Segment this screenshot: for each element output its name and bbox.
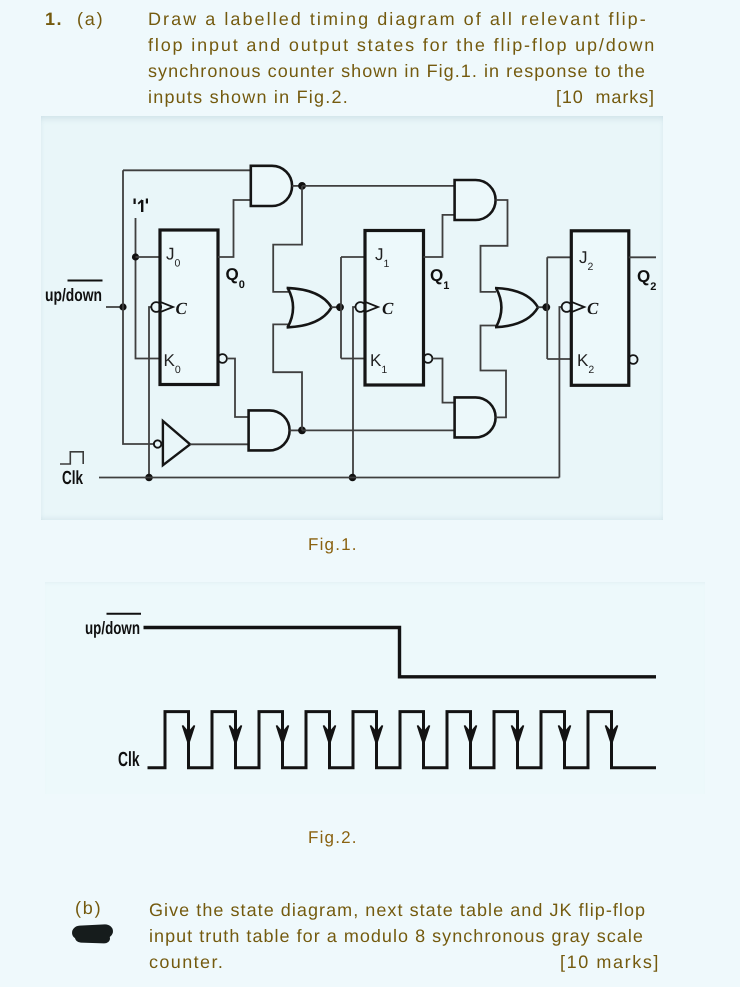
wire OR2 out to J2 and K2 — [547, 257, 571, 359]
wire AND2 out to AND4 lower input — [302, 429, 455, 431]
wire up/down input stub — [106, 306, 123, 308]
pin K2 label — [577, 351, 594, 376]
label Clk (waveform) — [118, 748, 140, 771]
pin C label FF0 — [176, 299, 188, 318]
label up/down (input) — [45, 285, 102, 305]
label Q2 — [637, 267, 656, 293]
overline of down (waveform label) — [107, 613, 142, 615]
wire Q0bar to AND2 upper input — [227, 359, 249, 418]
wire AND1 out to AND3 top input — [302, 185, 455, 187]
label Clk — [62, 468, 83, 489]
node OR1 output — [336, 303, 344, 311]
waveform up/down trace — [144, 628, 657, 677]
label up/down (waveform) — [85, 618, 140, 638]
wire Q2 output — [629, 256, 656, 258]
AND gate G1 (up AND Q0) — [251, 166, 292, 206]
inverter G5 triangle — [163, 421, 190, 465]
wire FF1 clock down to Clk bus — [353, 307, 356, 478]
wire '1' vertical to K0 — [136, 218, 161, 359]
wire Q0 to AND1 lower input — [218, 200, 252, 257]
wire AND4 out to OR2 lower input — [481, 326, 507, 418]
handwritten black blob mark — [72, 924, 114, 940]
FF2 Qbar bubble — [629, 355, 638, 364]
wire FF2 clock down to Clk bus — [559, 307, 561, 478]
wire FF0 clock down to Clk bus — [149, 307, 151, 478]
flip-flop U3 body — [571, 231, 629, 385]
pin K0 label — [164, 351, 181, 376]
wire OR1 out to J1 and K1 — [341, 257, 365, 359]
pin C label FF1 — [382, 299, 394, 318]
wire inverter output to AND2 lower input — [190, 443, 249, 445]
FF0 clock bubble — [151, 302, 161, 312]
node clock junction FF1 — [349, 474, 357, 482]
inverter input bubble — [154, 440, 161, 447]
node up/down junction — [119, 303, 126, 310]
clk falling edge arrows — [183, 726, 618, 745]
FF2 clock bubble — [562, 302, 572, 312]
FF1 clock wedge — [365, 302, 378, 312]
waveform Clk trace — [148, 712, 657, 768]
pin C label FF2 — [587, 299, 599, 318]
svg-text:up/down: up/down — [85, 618, 140, 638]
label Q1 — [430, 266, 449, 292]
node clock junction FF0 — [145, 474, 153, 482]
wire '1' to J0 — [136, 256, 161, 258]
label '1' constant — [135, 199, 147, 213]
wire Q1bar to AND4 upper input — [432, 359, 454, 403]
wire up/down to AND1 top input — [123, 169, 252, 171]
pin K1 label — [370, 351, 387, 376]
node '1' to J0 junction — [132, 253, 139, 260]
wire OR2 output stub — [538, 306, 547, 308]
OR gate G7 — [495, 288, 538, 327]
pin J1 label — [375, 245, 390, 270]
FF0 Qbar bubble — [218, 354, 227, 363]
overline of down — [68, 280, 103, 282]
FF1 Qbar bubble — [424, 354, 433, 363]
clock pulse symbol — [60, 452, 83, 464]
node AND2 output — [298, 427, 306, 435]
wire AND1 output stub — [292, 185, 302, 187]
wire AND1 out down to OR1 upper input — [273, 186, 302, 292]
AND gate G4 (up AND Q1) — [455, 180, 496, 220]
wire Q1 to AND3 lower input — [424, 215, 455, 257]
node AND1 output — [298, 182, 306, 190]
flip-flop U1 body — [160, 230, 218, 385]
AND gate G6 (down AND Q1bar) — [455, 397, 496, 437]
wire OR1 output stub — [331, 306, 340, 308]
wire AND2 out up to OR1 lower input — [273, 324, 302, 430]
node OR2 output — [542, 303, 550, 311]
FF2 clock wedge — [571, 302, 584, 312]
pin J0 label — [166, 245, 181, 270]
wire AND3 out to OR2 upper input — [481, 200, 508, 292]
Fig.1 caption — [308, 535, 358, 555]
AND gate G2 (down AND Q0bar) — [249, 410, 290, 450]
Fig.2 scanned timing diagram background — [45, 582, 705, 794]
OR gate G3 — [287, 288, 332, 328]
svg-text:Clk: Clk — [118, 748, 140, 771]
FF1 clock bubble — [356, 302, 366, 312]
label Q0 — [226, 265, 245, 291]
wire up/down vertical trunk — [123, 170, 154, 444]
flip-flop U2 body — [365, 231, 424, 386]
question 1(a) header text — [45, 6, 63, 32]
wire AND2 output stub — [290, 429, 302, 431]
FF0 clock wedge — [160, 302, 173, 312]
Fig.1 scanned circuit background — [41, 116, 663, 520]
pin J2 label — [579, 248, 594, 273]
question 1(b) text — [75, 895, 102, 921]
Fig.2 caption — [308, 828, 358, 848]
wire Clk bus — [99, 477, 559, 479]
